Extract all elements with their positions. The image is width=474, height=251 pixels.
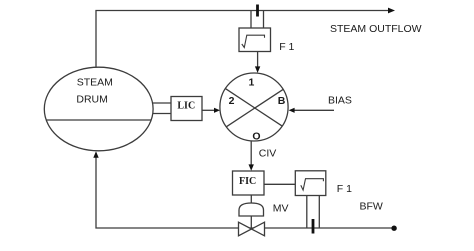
svg-text:BIAS: BIAS [328,95,352,107]
svg-text:DRUM: DRUM [76,94,108,106]
svg-text:F 1: F 1 [279,41,294,53]
svg-text:BFW: BFW [360,201,383,213]
svg-text:CIV: CIV [259,148,277,160]
svg-text:B: B [278,95,286,107]
svg-text:MV: MV [273,203,289,215]
svg-text:LIC: LIC [177,101,195,112]
svg-text:STEAM OUTFLOW: STEAM OUTFLOW [330,23,422,35]
svg-text:1: 1 [248,77,254,89]
svg-text:F 1: F 1 [337,183,352,195]
svg-text:STEAM: STEAM [77,77,113,89]
svg-text:2: 2 [229,95,235,107]
svg-text:O: O [252,131,260,143]
svg-text:FIC: FIC [239,176,256,187]
